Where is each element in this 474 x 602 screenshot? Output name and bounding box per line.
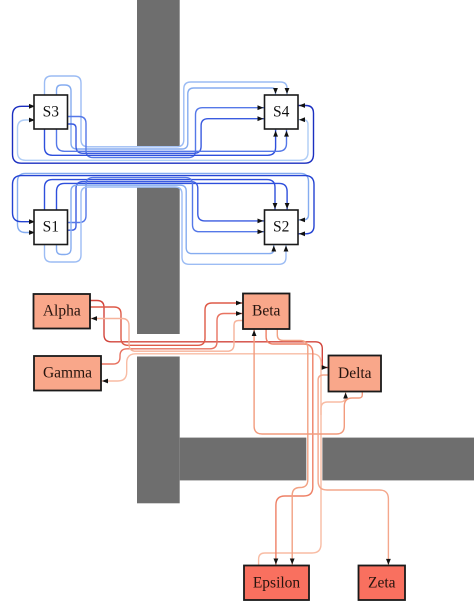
svg-text:S4: S4 bbox=[273, 104, 290, 121]
svg-text:Gamma: Gamma bbox=[43, 365, 92, 382]
svg-text:S3: S3 bbox=[43, 104, 60, 121]
svg-text:Beta: Beta bbox=[252, 303, 281, 320]
svg-text:Delta: Delta bbox=[338, 365, 372, 382]
svg-text:Alpha: Alpha bbox=[43, 303, 81, 320]
svg-text:S1: S1 bbox=[43, 219, 59, 236]
svg-text:Epsilon: Epsilon bbox=[253, 574, 301, 591]
svg-text:Zeta: Zeta bbox=[368, 574, 396, 591]
svg-text:S2: S2 bbox=[273, 219, 289, 236]
